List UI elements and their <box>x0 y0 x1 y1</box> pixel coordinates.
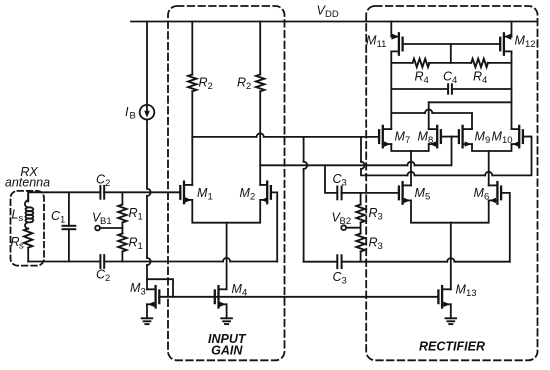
node C4 label <box>443 70 457 87</box>
current source IB <box>140 22 155 290</box>
svg-text:R: R <box>369 236 378 250</box>
wire M11 drain column <box>390 51 392 129</box>
svg-text:M: M <box>475 130 486 144</box>
node VB2 terminal <box>341 225 360 230</box>
wire branch M1 drain to lower C3 net <box>304 137 308 262</box>
svg-text:2: 2 <box>250 192 255 203</box>
ground (M13) <box>446 318 457 324</box>
svg-text:2: 2 <box>105 273 110 284</box>
node RECTIFIER label <box>419 340 485 354</box>
svg-text:GAIN: GAIN <box>211 344 243 358</box>
svg-text:2: 2 <box>208 81 213 92</box>
wire gate rail M3-M4-M13 <box>159 296 438 298</box>
node M5 label <box>415 186 431 203</box>
transistor M13 <box>438 286 450 318</box>
capacitor C1 <box>63 192 76 261</box>
svg-text:M: M <box>474 186 485 200</box>
svg-text:11: 11 <box>377 39 387 50</box>
svg-text:B2: B2 <box>340 216 352 227</box>
capacitor C4 <box>391 84 511 93</box>
svg-text:4: 4 <box>452 75 457 86</box>
svg-text:B1: B1 <box>100 216 112 227</box>
resistor R3 bottom <box>356 234 364 262</box>
wire M2 drain to M8/M9 gates <box>260 164 407 166</box>
svg-text:M: M <box>366 34 377 48</box>
wire lower C3 net to M6 gate <box>304 193 510 262</box>
svg-text:4: 4 <box>482 75 487 86</box>
resistor R2 right <box>256 22 264 185</box>
node INPUT GAIN label <box>208 332 247 358</box>
node C2 bottom label <box>96 268 110 285</box>
node M7 label <box>395 130 411 147</box>
node R3 top label <box>369 206 383 223</box>
svg-text:12: 12 <box>525 39 536 50</box>
node Ls label <box>12 208 24 225</box>
svg-text:M: M <box>492 130 503 144</box>
node R4 left label <box>415 70 429 87</box>
node R2 left label <box>199 76 213 93</box>
wire bottom input (antenna bottom to M2 gate) <box>28 192 277 261</box>
svg-text:5: 5 <box>425 192 430 203</box>
node R2 right label <box>237 76 251 93</box>
svg-text:L: L <box>12 208 19 222</box>
transistor M12 <box>500 22 511 55</box>
svg-text:R: R <box>129 206 138 220</box>
svg-text:R: R <box>415 70 424 84</box>
transistor M3 (diode-connected) <box>147 279 173 318</box>
node R4 right label <box>473 70 487 87</box>
svg-text:4: 4 <box>242 288 247 299</box>
svg-text:M: M <box>415 186 426 200</box>
capacitor C2 top <box>100 186 104 199</box>
node M13 label <box>456 283 477 300</box>
node C1 label <box>51 209 65 226</box>
svg-text:antenna: antenna <box>5 176 50 190</box>
svg-text:s: s <box>19 241 24 252</box>
node M3 label <box>130 281 146 298</box>
node VDD label <box>317 4 339 21</box>
svg-text:3: 3 <box>378 241 383 252</box>
svg-text:3: 3 <box>342 178 347 189</box>
svg-text:13: 13 <box>466 288 477 299</box>
transistor M2 <box>260 182 271 204</box>
transistor M11 <box>391 22 402 55</box>
svg-text:M: M <box>197 186 208 200</box>
transistor M4 <box>215 286 227 318</box>
transistor M10 <box>512 126 532 147</box>
transistor M1 <box>180 182 192 204</box>
transistor M5 <box>399 182 411 204</box>
svg-text:1: 1 <box>60 215 65 226</box>
wire VDD rail <box>131 21 536 23</box>
svg-text:2: 2 <box>105 178 110 189</box>
node M8 label <box>418 130 434 147</box>
svg-text:M: M <box>240 186 251 200</box>
svg-text:R: R <box>369 206 378 220</box>
svg-text:1: 1 <box>138 212 143 223</box>
dashed box INPUT GAIN <box>168 6 285 360</box>
svg-text:DD: DD <box>325 9 339 20</box>
svg-text:1: 1 <box>138 241 143 252</box>
resistor R4 right <box>471 59 511 67</box>
svg-text:R: R <box>199 76 208 90</box>
resistor R3 top <box>356 193 364 234</box>
node R1 bottom label <box>129 236 143 253</box>
wire M12 drain to M8 drain <box>429 102 512 129</box>
svg-text:3: 3 <box>342 276 347 287</box>
svg-text:M: M <box>456 283 467 297</box>
wire top input (antenna top to M1 gate) <box>28 191 180 193</box>
dashed box RECTIFIER <box>366 6 537 360</box>
node M10 label <box>492 130 513 147</box>
node C2 top label <box>96 173 110 190</box>
wire M7/M8 common source to M5 drain <box>391 144 428 185</box>
transistor M9 <box>452 126 473 147</box>
node C3 bottom label <box>333 270 347 287</box>
svg-text:M: M <box>395 130 406 144</box>
dashed box antenna <box>11 191 45 266</box>
svg-text:B: B <box>130 111 136 122</box>
svg-text:3: 3 <box>141 287 146 298</box>
resistor Rs <box>24 229 32 262</box>
svg-text:2: 2 <box>246 81 251 92</box>
svg-text:M: M <box>418 130 429 144</box>
svg-text:RECTIFIER: RECTIFIER <box>419 340 485 354</box>
svg-text:4: 4 <box>424 75 429 86</box>
node R3 bottom label <box>369 236 383 253</box>
node VB1 label <box>92 211 112 228</box>
wire M11/M12 gate rail with center tap <box>403 44 501 63</box>
wire M11 drain to M9 drain <box>391 109 472 129</box>
wire M9/M10 common source to M6 drain <box>472 144 512 185</box>
node RX antenna label <box>5 165 50 190</box>
svg-text:R: R <box>473 70 482 84</box>
ground (M3) <box>142 318 153 324</box>
wire M12 drain column <box>511 51 513 129</box>
node M4 label <box>232 282 248 299</box>
svg-text:M: M <box>515 34 526 48</box>
node M1 label <box>197 186 213 203</box>
node M9 label <box>475 130 491 147</box>
transistor M8 <box>429 126 452 147</box>
node M6 label <box>474 186 490 203</box>
wire M5/M6 common source to M13 drain <box>411 200 489 289</box>
svg-text:7: 7 <box>405 135 410 146</box>
svg-text:R: R <box>237 76 246 90</box>
capacitor C3 bottom <box>337 255 341 268</box>
svg-text:1: 1 <box>208 192 213 203</box>
svg-text:R: R <box>129 236 138 250</box>
wire M1/M2 common source tail <box>192 200 260 289</box>
resistor R1 top <box>118 192 126 233</box>
capacitor C2 bottom <box>100 255 104 268</box>
svg-text:s: s <box>19 213 24 224</box>
node Rs label <box>11 235 25 252</box>
wire M1 drain to M7 gate <box>192 133 379 137</box>
node R1 top label <box>129 206 143 223</box>
node VB1 terminal <box>95 226 122 231</box>
resistor R2 left <box>188 22 196 185</box>
svg-text:3: 3 <box>378 212 383 223</box>
node C3 top label <box>333 172 347 189</box>
capacitor C3 top <box>337 187 341 200</box>
node VB2 label <box>332 211 352 228</box>
node IB label <box>125 105 136 122</box>
inductor Ls <box>25 192 33 228</box>
node M2 label <box>240 186 256 203</box>
resistor R4 left <box>391 59 471 67</box>
wire branch M2 drain to upper C3 net <box>325 165 399 193</box>
ground (M4) <box>221 318 232 324</box>
resistor R1 bottom <box>118 234 126 262</box>
wire branch M1 drain to M10 gate <box>361 137 532 176</box>
svg-text:M: M <box>232 282 243 296</box>
transistor M7 <box>379 126 391 147</box>
node M11 label <box>366 34 386 51</box>
svg-text:9: 9 <box>485 135 490 146</box>
svg-text:I: I <box>125 105 129 119</box>
svg-text:M: M <box>130 281 141 295</box>
transistor M6 <box>489 182 501 204</box>
node M12 label <box>515 34 536 51</box>
